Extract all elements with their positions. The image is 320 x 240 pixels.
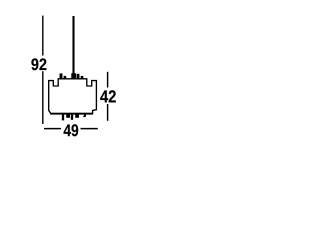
candle bulb 2: [64, 76, 67, 79]
body height dimension line 42 lower: [107, 104, 109, 121]
height dimension line 92 lower: [42, 71, 44, 124]
height dimension line 92 upper: [42, 16, 44, 56]
bottom drop pendant 3: [71, 114, 73, 120]
label 42: [100, 90, 116, 102]
bottom drop pendant 4: [75, 114, 79, 118]
label 49: [64, 124, 79, 136]
label 92: [31, 58, 46, 70]
width dimension line 49 right: [81, 128, 98, 130]
fixture body outline: [49, 79, 97, 114]
candle bulb 4: [81, 76, 84, 79]
bottom drop pendant 5: [84, 114, 86, 117]
bottom drop pendant 1: [62, 114, 64, 121]
body height dimension line 42 upper: [107, 72, 109, 88]
width dimension line 49 left: [44, 128, 61, 130]
rod end knob: [71, 73, 76, 79]
suspension rod: [72, 16, 74, 75]
bottom drop pendant 2: [66, 114, 70, 118]
candle bulb 1: [60, 73, 63, 79]
candle bulb 3: [77, 74, 80, 79]
body bottom edge: [50, 113, 93, 115]
